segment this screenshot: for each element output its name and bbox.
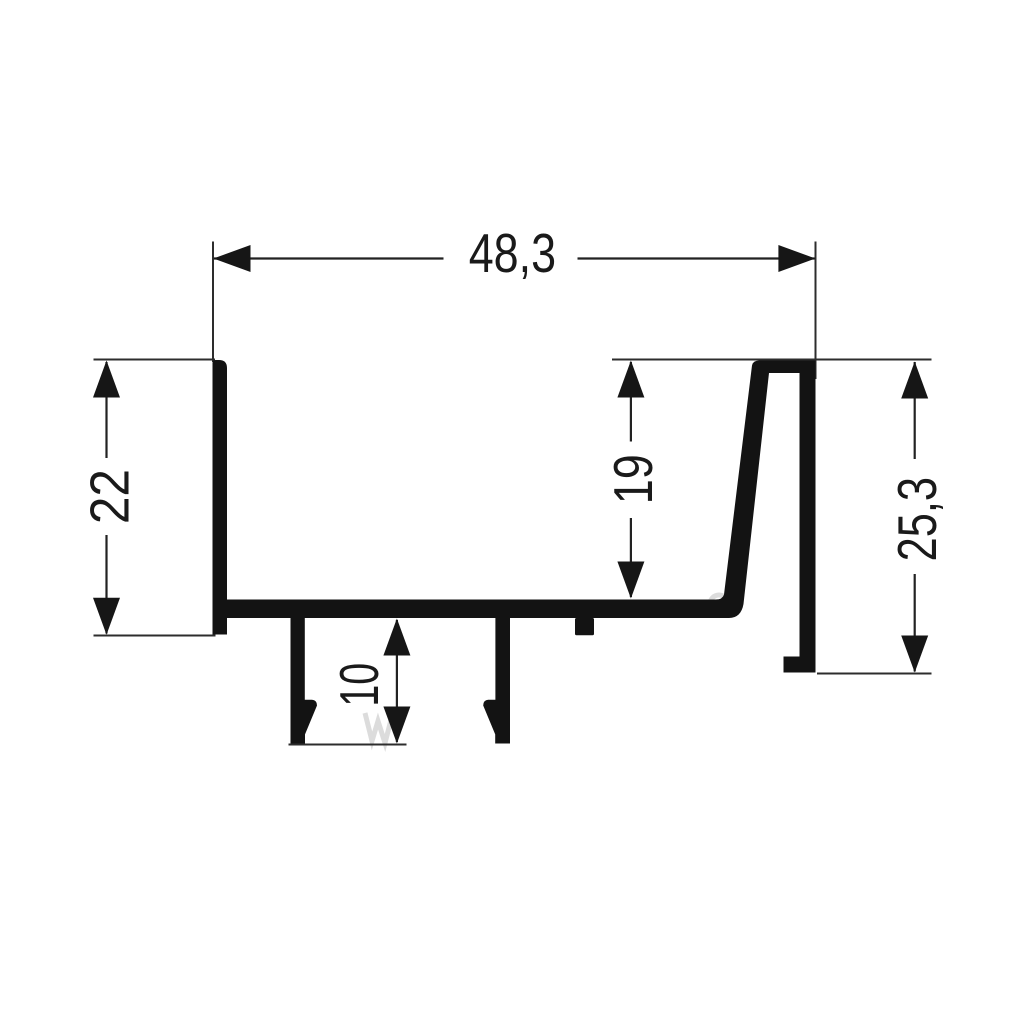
- svg-text:19: 19: [602, 454, 664, 504]
- svg-text:10: 10: [330, 663, 391, 707]
- svg-text:22: 22: [80, 469, 141, 524]
- svg-text:25,3: 25,3: [887, 477, 948, 561]
- svg-text:48,3: 48,3: [469, 223, 556, 284]
